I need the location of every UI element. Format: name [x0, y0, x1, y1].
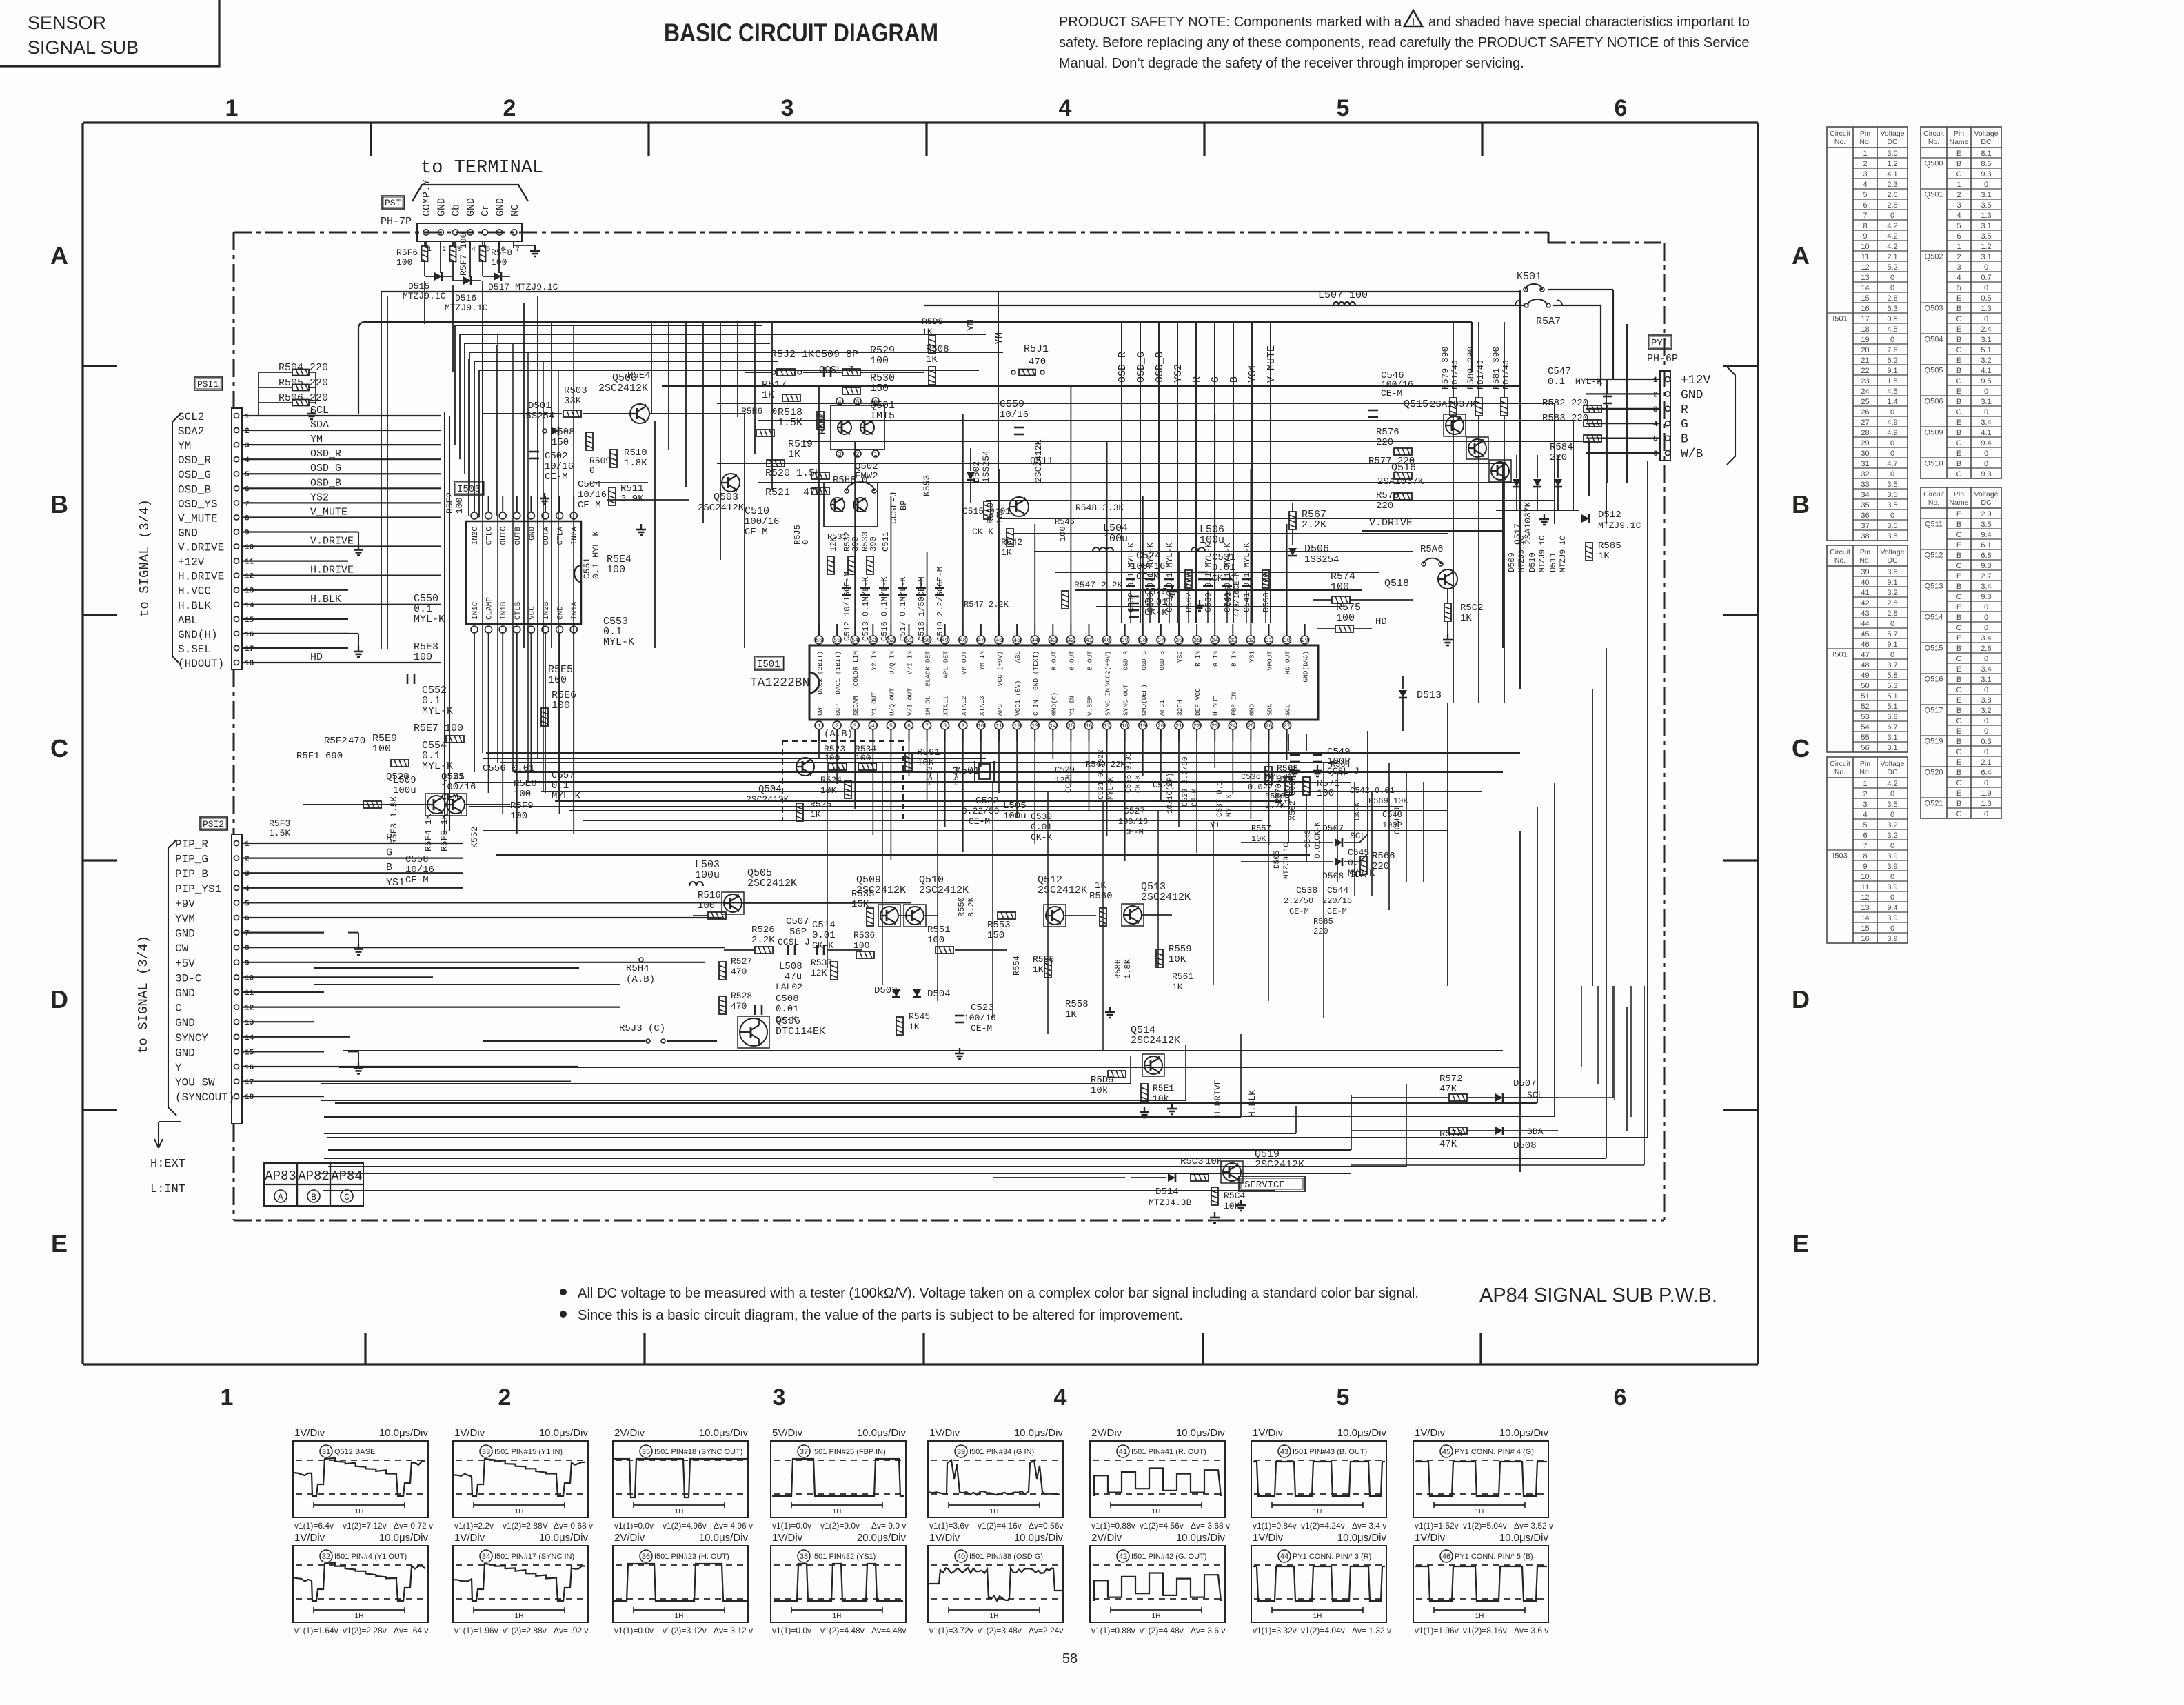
svg-text:BP: BP	[899, 501, 909, 510]
svg-text:IN2A: IN2A	[571, 527, 579, 545]
svg-text:9.5: 9.5	[1981, 377, 1991, 385]
svg-text:R525: R525	[810, 799, 831, 809]
svg-text:3D-C: 3D-C	[175, 972, 201, 985]
svg-text:1: 1	[245, 413, 250, 421]
svg-text:v1(1)=1.52v: v1(1)=1.52v	[1415, 1521, 1459, 1531]
svg-text:Q503: Q503	[714, 492, 738, 503]
svg-text:XTAL2: XTAL2	[960, 696, 968, 716]
svg-text:BASIC CIRCUIT DIAGRAM: BASIC CIRCUIT DIAGRAM	[664, 19, 938, 47]
svg-text:MTZJ9.1C: MTZJ9.1C	[1559, 536, 1568, 572]
svg-text:6: 6	[874, 399, 878, 405]
svg-text:0: 0	[801, 540, 811, 545]
svg-text:v1(1)=0.88v: v1(1)=0.88v	[1091, 1521, 1135, 1531]
svg-text:B: B	[1957, 552, 1961, 560]
svg-text:E: E	[1957, 727, 1961, 736]
svg-text:3.5: 3.5	[1981, 521, 1991, 529]
svg-text:R560: R560	[1089, 891, 1113, 902]
svg-text:18: 18	[1122, 723, 1129, 729]
svg-text:Circuit: Circuit	[1923, 490, 1944, 498]
svg-text:CE-M: CE-M	[969, 816, 990, 827]
svg-text:E: E	[1957, 665, 1961, 674]
svg-text:D512: D512	[1598, 510, 1621, 521]
svg-text:R503: R503	[564, 385, 587, 396]
svg-text:3.2: 3.2	[1887, 821, 1897, 829]
svg-text:3.9: 3.9	[1887, 883, 1897, 891]
svg-text:10K: 10K	[1205, 1156, 1223, 1167]
svg-text:1V/Div: 1V/Div	[772, 1532, 803, 1544]
svg-text:Q514: Q514	[1925, 614, 1943, 622]
svg-text:Δv= 9.0 v: Δv= 9.0 v	[871, 1521, 906, 1531]
svg-text:7: 7	[925, 723, 929, 729]
svg-text:+12V: +12V	[1681, 374, 1710, 387]
svg-text:35: 35	[642, 1448, 650, 1456]
svg-text:B: B	[1957, 738, 1961, 746]
svg-text:v1(2)=7.12v: v1(2)=7.12v	[343, 1521, 387, 1531]
svg-text:1V/Div: 1V/Div	[1415, 1532, 1446, 1544]
svg-text:23: 23	[1211, 723, 1218, 729]
svg-text:1.2: 1.2	[1887, 160, 1897, 168]
svg-text:K553: K553	[922, 475, 932, 496]
svg-text:I501 PIN#42 (G. OUT): I501 PIN#42 (G. OUT)	[1131, 1553, 1206, 1561]
svg-text:R508: R508	[552, 427, 575, 438]
svg-text:1H: 1H	[355, 1508, 364, 1515]
svg-text:R579 390: R579 390	[1440, 347, 1450, 390]
svg-text:0: 0	[1984, 655, 1988, 663]
svg-text:B: B	[1792, 490, 1810, 518]
svg-text:R521: R521	[765, 487, 790, 498]
svg-text:58: 58	[1062, 1651, 1078, 1666]
svg-text:C502: C502	[545, 451, 568, 462]
svg-text:CE-M: CE-M	[745, 527, 768, 538]
svg-text:2.8: 2.8	[1981, 645, 1991, 653]
svg-text:G.OUT: G.OUT	[1068, 651, 1075, 671]
svg-text:PSI2: PSI2	[203, 819, 224, 829]
svg-text:9.4: 9.4	[1981, 531, 1991, 539]
svg-text:100: 100	[927, 935, 944, 946]
svg-text:33: 33	[1229, 638, 1236, 644]
svg-text:3.7: 3.7	[1887, 661, 1897, 669]
svg-text:V.SEP: V.SEP	[1086, 696, 1094, 716]
svg-text:V/I OUT: V/I OUT	[907, 688, 914, 716]
svg-text:OSD B: OSD B	[1158, 651, 1166, 671]
svg-text:7: 7	[516, 246, 520, 254]
svg-text:L507 100: L507 100	[1318, 290, 1368, 301]
svg-text:4: 4	[1059, 95, 1072, 121]
svg-text:100: 100	[607, 564, 625, 576]
svg-text:390: 390	[851, 536, 860, 552]
svg-text:28: 28	[1861, 429, 1869, 437]
svg-text:No.: No.	[1928, 498, 1939, 507]
svg-text:v1(2)=4.16v: v1(2)=4.16v	[978, 1521, 1022, 1531]
svg-text:2V/Div: 2V/Div	[614, 1427, 645, 1439]
svg-text:3: 3	[1863, 170, 1867, 179]
svg-text:DC: DC	[1887, 768, 1898, 776]
svg-text:220: 220	[1376, 501, 1393, 512]
svg-text:3: 3	[853, 723, 857, 729]
svg-text:VCC2(+9V): VCC2(+9V)	[1104, 651, 1112, 686]
svg-text:37: 37	[800, 1448, 808, 1456]
svg-text:v1(1)=6.4v: v1(1)=6.4v	[294, 1521, 334, 1531]
svg-text:Q510: Q510	[1925, 460, 1943, 468]
svg-text:MTZJ9.1C: MTZJ9.1C	[1283, 843, 1291, 879]
svg-text:Circuit: Circuit	[1830, 760, 1850, 768]
svg-text:C: C	[1957, 470, 1962, 478]
svg-text:0: 0	[1984, 263, 1988, 272]
svg-text:9.1: 9.1	[1887, 640, 1897, 649]
svg-text:D: D	[1792, 985, 1810, 1013]
svg-text:2V/Div: 2V/Div	[1091, 1532, 1122, 1544]
svg-text:1: 1	[1957, 243, 1961, 251]
svg-text:No.: No.	[1859, 768, 1870, 776]
svg-text:C: C	[1957, 810, 1962, 818]
svg-text:10: 10	[245, 544, 254, 552]
svg-text:0: 0	[1984, 624, 1988, 632]
svg-text:1V/Div: 1V/Div	[1415, 1427, 1446, 1439]
svg-text:MYL-K: MYL-K	[552, 791, 581, 802]
svg-text:CCSL-J: CCSL-J	[819, 365, 853, 376]
svg-text:30: 30	[1284, 638, 1291, 644]
svg-text:26: 26	[1861, 408, 1869, 416]
svg-text:ABL: ABL	[178, 614, 198, 627]
svg-text:I501 PIN#38 (OSD G): I501 PIN#38 (OSD G)	[969, 1553, 1043, 1561]
svg-text:1K: 1K	[1172, 982, 1183, 992]
svg-text:10k: 10k	[1153, 1093, 1169, 1104]
svg-text:35: 35	[1193, 638, 1200, 644]
svg-text:Δv= .64 v: Δv= .64 v	[394, 1626, 428, 1635]
svg-text:R545: R545	[909, 1011, 930, 1022]
svg-text:100/16: 100/16	[745, 516, 779, 527]
svg-text:E: E	[1957, 418, 1961, 427]
svg-text:16: 16	[1861, 305, 1869, 313]
svg-text:SCL: SCL	[1284, 704, 1292, 716]
svg-text:25: 25	[1248, 723, 1255, 729]
svg-text:31: 31	[1861, 460, 1869, 468]
svg-text:1: 1	[818, 723, 821, 729]
svg-text:9.3: 9.3	[1981, 593, 1991, 601]
svg-text:100: 100	[414, 652, 432, 663]
svg-text:3.1: 3.1	[1981, 398, 1991, 406]
svg-text:100: 100	[510, 811, 527, 822]
svg-text:C: C	[175, 1002, 182, 1015]
svg-text:YS1: YS1	[386, 877, 405, 889]
svg-text:2: 2	[856, 452, 860, 458]
svg-text:56: 56	[1861, 744, 1869, 752]
svg-text:1: 1	[225, 95, 239, 121]
svg-text:R558: R558	[1065, 999, 1089, 1010]
svg-text:470: 470	[731, 967, 747, 977]
svg-text:v1(1)=0.0v: v1(1)=0.0v	[614, 1521, 654, 1531]
svg-text:AP83: AP83	[265, 1169, 296, 1184]
svg-text:0: 0	[1984, 450, 1988, 458]
svg-text:MYL-K: MYL-K	[1226, 794, 1234, 817]
svg-text:0: 0	[1890, 651, 1894, 659]
svg-text:100: 100	[454, 498, 465, 514]
svg-text:PY1 CONN. PIN# 5 (B): PY1 CONN. PIN# 5 (B)	[1455, 1553, 1533, 1561]
svg-text:CE-M: CE-M	[1381, 388, 1402, 398]
svg-text:GND: GND	[1248, 704, 1255, 716]
svg-text:Name: Name	[1949, 498, 1968, 507]
svg-text:PH-7P: PH-7P	[381, 216, 412, 228]
svg-text:MYL-K: MYL-K	[603, 636, 634, 648]
svg-text:1: 1	[245, 840, 250, 849]
svg-text:Δv= 4.96 v: Δv= 4.96 v	[714, 1521, 753, 1531]
svg-text:35: 35	[1861, 501, 1869, 510]
svg-text:2SC2412K: 2SC2412K	[1131, 1035, 1180, 1047]
svg-text:3.5: 3.5	[1887, 501, 1897, 510]
svg-text:4: 4	[245, 456, 250, 465]
svg-text:6.7: 6.7	[1887, 723, 1897, 732]
svg-text:52: 52	[1861, 703, 1869, 711]
svg-text:RD1/4J: RD1/4J	[1502, 360, 1511, 390]
svg-text:R572: R572	[1439, 1073, 1463, 1084]
svg-text:R5A7: R5A7	[1536, 316, 1561, 327]
svg-text:Since this is a basic circuit: Since this is a basic circuit diagram, t…	[578, 1308, 1183, 1323]
svg-text:GND(C): GND(C)	[1050, 692, 1058, 716]
svg-text:D507: D507	[1322, 823, 1344, 834]
svg-text:5: 5	[889, 723, 893, 729]
svg-text:C558: C558	[405, 854, 429, 865]
svg-text:3: 3	[245, 442, 250, 450]
svg-text:C516 0.1MYL-K: C516 0.1MYL-K	[880, 576, 889, 641]
svg-text:C510: C510	[745, 505, 769, 517]
svg-text:1SS254: 1SS254	[1304, 554, 1339, 565]
svg-text:39: 39	[957, 1448, 965, 1456]
svg-text:1K: 1K	[1033, 965, 1044, 975]
svg-text:3.5: 3.5	[1887, 532, 1897, 541]
svg-text:CE-M: CE-M	[545, 472, 568, 483]
svg-text:OSD_G: OSD_G	[310, 463, 341, 474]
svg-text:MTZJ4.3B: MTZJ4.3B	[1149, 1198, 1192, 1208]
svg-text:29: 29	[1302, 638, 1308, 644]
svg-text:55: 55	[1861, 734, 1869, 742]
svg-text:1H: 1H	[833, 1508, 842, 1515]
svg-text:C: C	[1957, 655, 1962, 663]
svg-text:1.5K: 1.5K	[269, 828, 290, 838]
svg-text:3.9K: 3.9K	[620, 494, 644, 505]
svg-text:G: G	[1210, 376, 1222, 383]
svg-text:4.5: 4.5	[1887, 325, 1897, 334]
svg-text:8.1: 8.1	[1981, 150, 1991, 158]
svg-text:VCC1 (5V): VCC1 (5V)	[1014, 680, 1022, 716]
svg-text:0: 0	[1984, 748, 1988, 756]
svg-text:R546: R546	[1055, 517, 1075, 527]
svg-text:40: 40	[1104, 638, 1111, 644]
svg-text:+9V: +9V	[175, 898, 195, 910]
svg-text:15: 15	[1068, 723, 1075, 729]
svg-text:v1(1)=1.64v: v1(1)=1.64v	[294, 1626, 338, 1635]
svg-text:Q521: Q521	[441, 771, 465, 783]
svg-text:5: 5	[1337, 95, 1350, 121]
svg-text:6: 6	[1863, 201, 1867, 210]
svg-text:v1(2)=9.0v: v1(2)=9.0v	[820, 1521, 860, 1531]
svg-text:0: 0	[1984, 727, 1988, 736]
svg-text:v1(1)=0.0v: v1(1)=0.0v	[614, 1626, 654, 1635]
svg-text:Q515: Q515	[1404, 398, 1428, 410]
svg-text:v1(1)=2.2v: v1(1)=2.2v	[454, 1521, 494, 1531]
svg-text:16: 16	[245, 1064, 254, 1072]
svg-text:Pin: Pin	[1954, 490, 1964, 498]
svg-text:E: E	[1792, 1229, 1809, 1258]
svg-text:10.0μs/Div: 10.0μs/Div	[1499, 1427, 1549, 1439]
svg-text:B: B	[1957, 398, 1961, 406]
svg-text:1K: 1K	[1460, 613, 1472, 624]
svg-text:Q520: Q520	[386, 771, 410, 783]
svg-text:47K: 47K	[1439, 1084, 1457, 1095]
svg-text:1V/Div: 1V/Div	[454, 1532, 485, 1544]
svg-text:18: 18	[245, 1093, 254, 1102]
svg-text:R5F1 690: R5F1 690	[296, 751, 343, 762]
svg-text:FMW2: FMW2	[855, 471, 878, 482]
svg-text:XTAL3: XTAL3	[978, 696, 986, 716]
svg-text:3: 3	[1957, 201, 1961, 210]
svg-text:41: 41	[1861, 589, 1869, 597]
svg-text:Q521: Q521	[1925, 800, 1943, 808]
svg-text:v1(2)=4.56v: v1(2)=4.56v	[1140, 1521, 1184, 1531]
svg-text:B: B	[386, 862, 392, 874]
svg-text:DC: DC	[1981, 498, 1992, 507]
svg-text:6: 6	[1863, 831, 1867, 840]
svg-text:C559: C559	[1000, 398, 1024, 410]
svg-text:1H: 1H	[833, 1613, 842, 1620]
svg-text:E: E	[51, 1229, 68, 1258]
svg-text:DAC1 (1BIT): DAC1 (1BIT)	[834, 651, 842, 694]
svg-text:3: 3	[781, 95, 794, 121]
svg-text:R520 1.5K: R520 1.5K	[765, 467, 821, 479]
svg-text:Circuit: Circuit	[1830, 130, 1850, 138]
svg-text:CLAMP: CLAMP	[486, 597, 494, 620]
svg-text:0.01: 0.01	[812, 930, 836, 941]
svg-text:3: 3	[1653, 406, 1658, 414]
svg-text:1H: 1H	[990, 1508, 999, 1515]
svg-text:4.2: 4.2	[1887, 243, 1897, 251]
svg-text:4.2: 4.2	[1887, 222, 1897, 230]
svg-text:MYL-K: MYL-K	[1348, 868, 1375, 878]
svg-text:10K: 10K	[1224, 1201, 1240, 1211]
svg-text:IN1B: IN1B	[500, 601, 508, 620]
svg-text:Δv= 0.72 v: Δv= 0.72 v	[394, 1521, 433, 1531]
svg-text:v1(2)=4.04v: v1(2)=4.04v	[1301, 1626, 1345, 1635]
svg-text:PH-6P: PH-6P	[1647, 353, 1678, 365]
svg-text:0.22/50: 0.22/50	[962, 806, 1000, 816]
svg-text:CE-M: CE-M	[578, 500, 601, 511]
svg-text:40: 40	[1861, 578, 1869, 587]
svg-text:54: 54	[851, 638, 858, 644]
svg-text:2: 2	[245, 427, 250, 436]
svg-text:2.6: 2.6	[1887, 201, 1897, 210]
svg-text:safety. Before replacing any o: safety. Before replacing any of these co…	[1059, 35, 1750, 50]
svg-text:OSD_B: OSD_B	[1154, 352, 1166, 383]
svg-text:R524: R524	[820, 775, 842, 785]
svg-text:I501 PIN#34 (G IN): I501 PIN#34 (G IN)	[969, 1448, 1034, 1456]
svg-text:R5D8: R5D8	[922, 316, 943, 327]
svg-text:Q518: Q518	[1384, 578, 1409, 589]
svg-text:12: 12	[245, 1005, 254, 1013]
svg-text:GND: GND	[175, 1017, 195, 1029]
svg-text:R5E7 100: R5E7 100	[414, 723, 463, 734]
svg-text:RD1/4J: RD1/4J	[1450, 360, 1460, 390]
svg-text:0: 0	[589, 465, 595, 476]
svg-text:55: 55	[833, 638, 840, 644]
svg-text:3.1: 3.1	[1981, 222, 1991, 230]
svg-text:PIP_G: PIP_G	[175, 854, 208, 866]
svg-text:v1(2)=5.04v: v1(2)=5.04v	[1463, 1521, 1507, 1531]
svg-text:Cb: Cb	[451, 204, 463, 216]
svg-text:45: 45	[1442, 1448, 1450, 1456]
svg-text:CCSL-J: CCSL-J	[889, 492, 899, 524]
svg-text:32: 32	[1248, 638, 1255, 644]
svg-text:R5F6: R5F6	[396, 248, 418, 258]
svg-text:v1(1)=0.88v: v1(1)=0.88v	[1091, 1626, 1135, 1635]
svg-text:SENSOR: SENSOR	[28, 12, 106, 33]
svg-text:CK-K: CK-K	[1135, 774, 1143, 793]
svg-text:Voltage: Voltage	[1974, 130, 1998, 138]
svg-text:D513: D513	[1417, 689, 1442, 701]
svg-text:1H: 1H	[1152, 1613, 1161, 1620]
svg-text:4.1: 4.1	[1981, 429, 1991, 437]
svg-text:1.3: 1.3	[1981, 212, 1991, 220]
svg-text:3.5: 3.5	[1887, 481, 1897, 489]
svg-text:10: 10	[978, 723, 984, 729]
svg-text:2: 2	[1957, 253, 1961, 261]
svg-text:2SC2412K: 2SC2412K	[598, 383, 648, 394]
svg-text:v1(2)=2.88v: v1(2)=2.88v	[503, 1626, 547, 1635]
svg-text:R IN: R IN	[1194, 651, 1202, 667]
svg-text:VCC (+9V): VCC (+9V)	[996, 651, 1004, 686]
svg-text:C: C	[1957, 439, 1962, 447]
svg-text:5.1: 5.1	[1887, 703, 1897, 711]
svg-text:24: 24	[1861, 387, 1869, 396]
svg-text:1V/Div: 1V/Div	[1253, 1532, 1284, 1544]
svg-text:12: 12	[245, 573, 254, 581]
svg-text:YM: YM	[310, 434, 323, 445]
svg-text:49: 49	[1861, 672, 1869, 680]
svg-text:45: 45	[1013, 638, 1020, 644]
svg-text:2: 2	[1863, 160, 1867, 168]
svg-text:3.2: 3.2	[1887, 831, 1897, 840]
svg-text:2.1: 2.1	[1887, 253, 1897, 261]
svg-text:0: 0	[1890, 274, 1894, 282]
svg-text:Δv=4.48v: Δv=4.48v	[871, 1626, 906, 1635]
svg-text:3.0: 3.0	[1887, 150, 1897, 158]
svg-text:C: C	[50, 734, 68, 763]
svg-text:7: 7	[245, 500, 250, 508]
svg-text:HD: HD	[1375, 616, 1387, 627]
svg-text:13: 13	[245, 1019, 254, 1027]
svg-text:v1(2)=4.24v: v1(2)=4.24v	[1301, 1521, 1345, 1531]
svg-text:2.2/50: 2.2/50	[1284, 896, 1313, 906]
svg-text:v1(2)=2.88V: v1(2)=2.88V	[503, 1521, 548, 1531]
svg-text:0: 0	[1890, 620, 1894, 628]
svg-text:10K: 10K	[820, 785, 837, 796]
svg-text:I501 PIN#4 (Y1 OUT): I501 PIN#4 (Y1 OUT)	[334, 1553, 407, 1561]
svg-text:Δv= 3.12 v: Δv= 3.12 v	[714, 1626, 753, 1635]
svg-text:C: C	[1957, 624, 1962, 632]
svg-text:100: 100	[824, 753, 840, 763]
svg-text:D504: D504	[927, 989, 951, 1000]
svg-text:Δv= 3.6 v: Δv= 3.6 v	[1191, 1626, 1225, 1635]
svg-text:4.2: 4.2	[1887, 780, 1897, 788]
svg-text:2.1: 2.1	[1981, 758, 1991, 767]
svg-text:MTZJ9.1C: MTZJ9.1C	[1518, 536, 1526, 572]
svg-text:OSD_R: OSD_R	[1117, 352, 1129, 383]
svg-text:C IN: C IN	[1032, 700, 1040, 716]
svg-text:OSD_B: OSD_B	[310, 477, 341, 489]
svg-text:1H: 1H	[675, 1508, 684, 1515]
svg-text:43: 43	[1861, 609, 1869, 618]
svg-text:11: 11	[245, 989, 254, 998]
svg-text:Δv= 3.4 v: Δv= 3.4 v	[1352, 1521, 1386, 1531]
svg-text:(A.B): (A.B)	[824, 729, 853, 740]
